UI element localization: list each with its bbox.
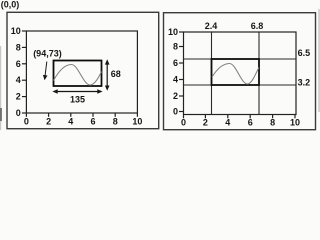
svg-text:6.5: 6.5 — [298, 48, 311, 58]
left x tick 6 — [92, 113, 94, 117]
svg-text:8: 8 — [173, 42, 178, 52]
svg-text:0: 0 — [16, 108, 21, 118]
svg-text:0: 0 — [173, 107, 178, 117]
svg-text:8: 8 — [270, 118, 275, 128]
left inner bbox — [54, 61, 102, 87]
svg-text:4: 4 — [173, 75, 178, 85]
svg-text:4: 4 — [16, 75, 21, 85]
right y tick 2 — [179, 95, 184, 97]
right y tick 10 — [179, 31, 184, 33]
svg-text:135: 135 — [70, 94, 85, 104]
svg-text:(94,73): (94,73) — [33, 49, 62, 59]
svg-text:10: 10 — [132, 116, 142, 126]
svg-text:10: 10 — [290, 118, 300, 128]
right y tick 4 — [179, 79, 184, 81]
svg-text:(0,0): (0,0) — [1, 0, 20, 9]
scan streak left edge — [0, 46, 1, 130]
svg-text:4: 4 — [68, 116, 73, 126]
scan blob left edge — [0, 108, 2, 121]
svg-text:6: 6 — [16, 59, 21, 69]
left figure border — [7, 12, 159, 128]
right y tick 0 — [179, 111, 184, 113]
right x tick 8 — [272, 115, 274, 119]
right x tick 4 — [227, 115, 229, 119]
annotation arrow to bbox corner — [45, 62, 47, 77]
svg-text:68: 68 — [111, 69, 121, 79]
left y tick 6 — [22, 63, 27, 65]
left y tick 10 — [22, 30, 27, 32]
right x tick 6 — [249, 115, 251, 119]
right sine curve — [212, 64, 259, 85]
svg-text:0: 0 — [181, 118, 186, 128]
guide line y=6.5 — [184, 58, 297, 60]
svg-text:6: 6 — [248, 118, 253, 128]
svg-text:8: 8 — [16, 42, 21, 52]
left y tick 2 — [22, 96, 27, 98]
width double arrow — [56, 91, 100, 93]
svg-text:2: 2 — [203, 118, 208, 128]
right y tick 8 — [179, 46, 184, 48]
left x tick 8 — [114, 113, 116, 117]
guide line x=2.4 — [211, 32, 213, 115]
scan streak right edge — [318, 9, 319, 112]
right x tick 10 — [294, 115, 296, 119]
height double arrow — [106, 63, 108, 89]
svg-text:2.4: 2.4 — [205, 21, 218, 31]
svg-text:0: 0 — [24, 116, 29, 126]
guide line y=3.2 — [184, 84, 297, 86]
svg-text:6: 6 — [90, 116, 95, 126]
svg-text:10: 10 — [168, 27, 178, 37]
svg-text:3.2: 3.2 — [298, 77, 311, 87]
svg-text:4: 4 — [225, 118, 230, 128]
right axes frame — [184, 32, 297, 115]
svg-text:2: 2 — [16, 92, 21, 102]
guide line x=6.8 — [258, 32, 260, 115]
left axes frame — [26, 31, 137, 113]
svg-text:6: 6 — [173, 58, 178, 68]
right x tick 2 — [204, 115, 206, 119]
svg-text:2: 2 — [173, 91, 178, 101]
left y tick 0 — [22, 112, 27, 114]
right figure border — [164, 13, 316, 130]
left sine curve — [54, 65, 102, 86]
left x tick 2 — [48, 113, 50, 117]
svg-text:8: 8 — [113, 116, 118, 126]
left x tick 10 — [136, 113, 138, 117]
svg-text:2: 2 — [46, 116, 51, 126]
right y tick 6 — [179, 62, 184, 64]
left x tick 0 — [25, 113, 27, 117]
left y tick 4 — [22, 79, 27, 81]
svg-text:10: 10 — [11, 26, 21, 36]
right x tick 0 — [183, 115, 185, 119]
left x tick 4 — [70, 113, 72, 117]
left y tick 8 — [22, 46, 27, 48]
right inner bbox — [212, 59, 260, 85]
svg-text:6.8: 6.8 — [251, 21, 264, 31]
